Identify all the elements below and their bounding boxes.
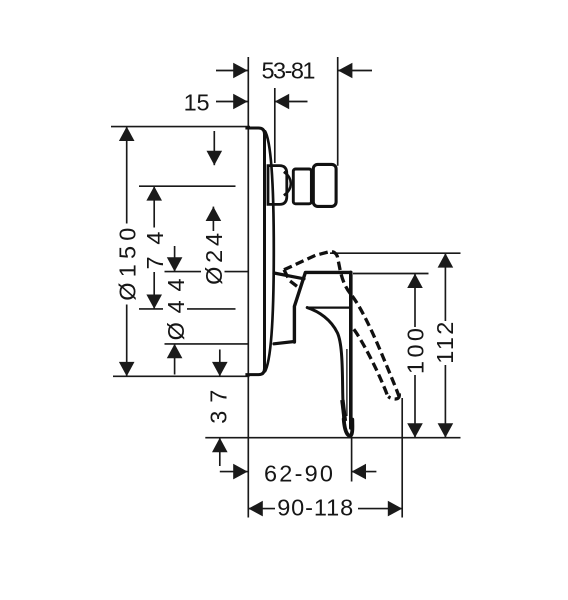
svg-text:15: 15 [184,90,210,116]
svg-text:112: 112 [432,322,458,364]
svg-text:100: 100 [403,328,429,374]
svg-text:62-90: 62-90 [264,460,333,486]
svg-text:Ø44: Ø44 [163,278,189,340]
svg-text:90-118: 90-118 [277,495,353,521]
svg-text:53-81: 53-81 [262,57,316,83]
svg-text:Ø24: Ø24 [201,233,227,285]
svg-text:Ø150: Ø150 [114,228,140,301]
